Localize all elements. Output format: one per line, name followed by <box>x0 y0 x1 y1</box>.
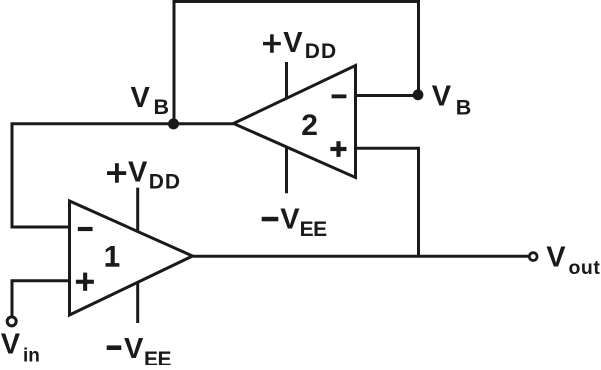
terminal: Vout open circle <box>529 253 537 261</box>
supply wire op-amp 1: +VDD through to -VEE <box>136 188 139 323</box>
op-amp U2 triangle (points left, output at apex) <box>234 65 356 177</box>
wire: op-amp 1 output to Vout terminal <box>192 255 528 258</box>
op-amp 1 designator label "1" <box>104 241 121 274</box>
op-amp U1 triangle (points right, output at apex) <box>69 201 192 315</box>
junction dot: node VB <box>168 118 179 129</box>
wire: op-amp 2 noninverting input down to output net <box>355 148 418 256</box>
terminal dot: right VB <box>413 89 424 100</box>
svg-text:V: V <box>546 241 566 273</box>
svg-text:out: out <box>568 257 600 279</box>
label VB at right terminal <box>432 81 472 120</box>
label -VEE for op-amp 2 <box>262 204 327 242</box>
label +VDD for op-amp 2 <box>263 27 337 63</box>
svg-text:V: V <box>124 333 144 365</box>
svg-text:V: V <box>432 81 452 113</box>
label VB at node (left) <box>131 82 170 119</box>
svg-text:V: V <box>128 157 148 189</box>
label -VEE for op-amp 1 <box>107 333 172 370</box>
svg-text:EE: EE <box>300 218 328 241</box>
svg-text:EE: EE <box>144 348 172 365</box>
wire: op-amp 1 noninverting input to Vin terminal <box>12 281 70 316</box>
op-amp 1 inverting input marker "-" <box>78 227 93 231</box>
svg-text:V: V <box>280 204 300 236</box>
svg-text:V: V <box>1 328 21 360</box>
op-amp 1 noninverting input marker "+" <box>76 273 94 291</box>
svg-text:V: V <box>283 27 303 59</box>
label Vin <box>1 328 40 366</box>
svg-text:B: B <box>456 95 472 119</box>
op-amp 2 noninverting input marker "+" <box>330 141 346 157</box>
terminal: Vin open circle <box>7 317 16 326</box>
svg-text:DD: DD <box>305 40 337 63</box>
label Vout <box>546 241 600 279</box>
wire: op-amp 2 output to node VB, down left side to op-amp 1 inverting input <box>12 124 234 227</box>
svg-text:2: 2 <box>301 109 318 142</box>
svg-text:DD: DD <box>149 171 181 194</box>
op-amp 2 inverting input marker "-" <box>332 94 347 98</box>
svg-text:1: 1 <box>104 241 121 274</box>
svg-text:V: V <box>131 82 151 114</box>
svg-text:in: in <box>23 345 40 365</box>
label +VDD for op-amp 1 <box>107 157 181 194</box>
svg-text:B: B <box>154 95 170 119</box>
supply wire op-amp 2: +VDD through to -VEE <box>285 62 288 193</box>
wire: op-amp 2 inverting input to right VB terminal <box>356 94 415 97</box>
wire: feedback net from node VB up over the top to right VB terminal <box>174 1 419 124</box>
